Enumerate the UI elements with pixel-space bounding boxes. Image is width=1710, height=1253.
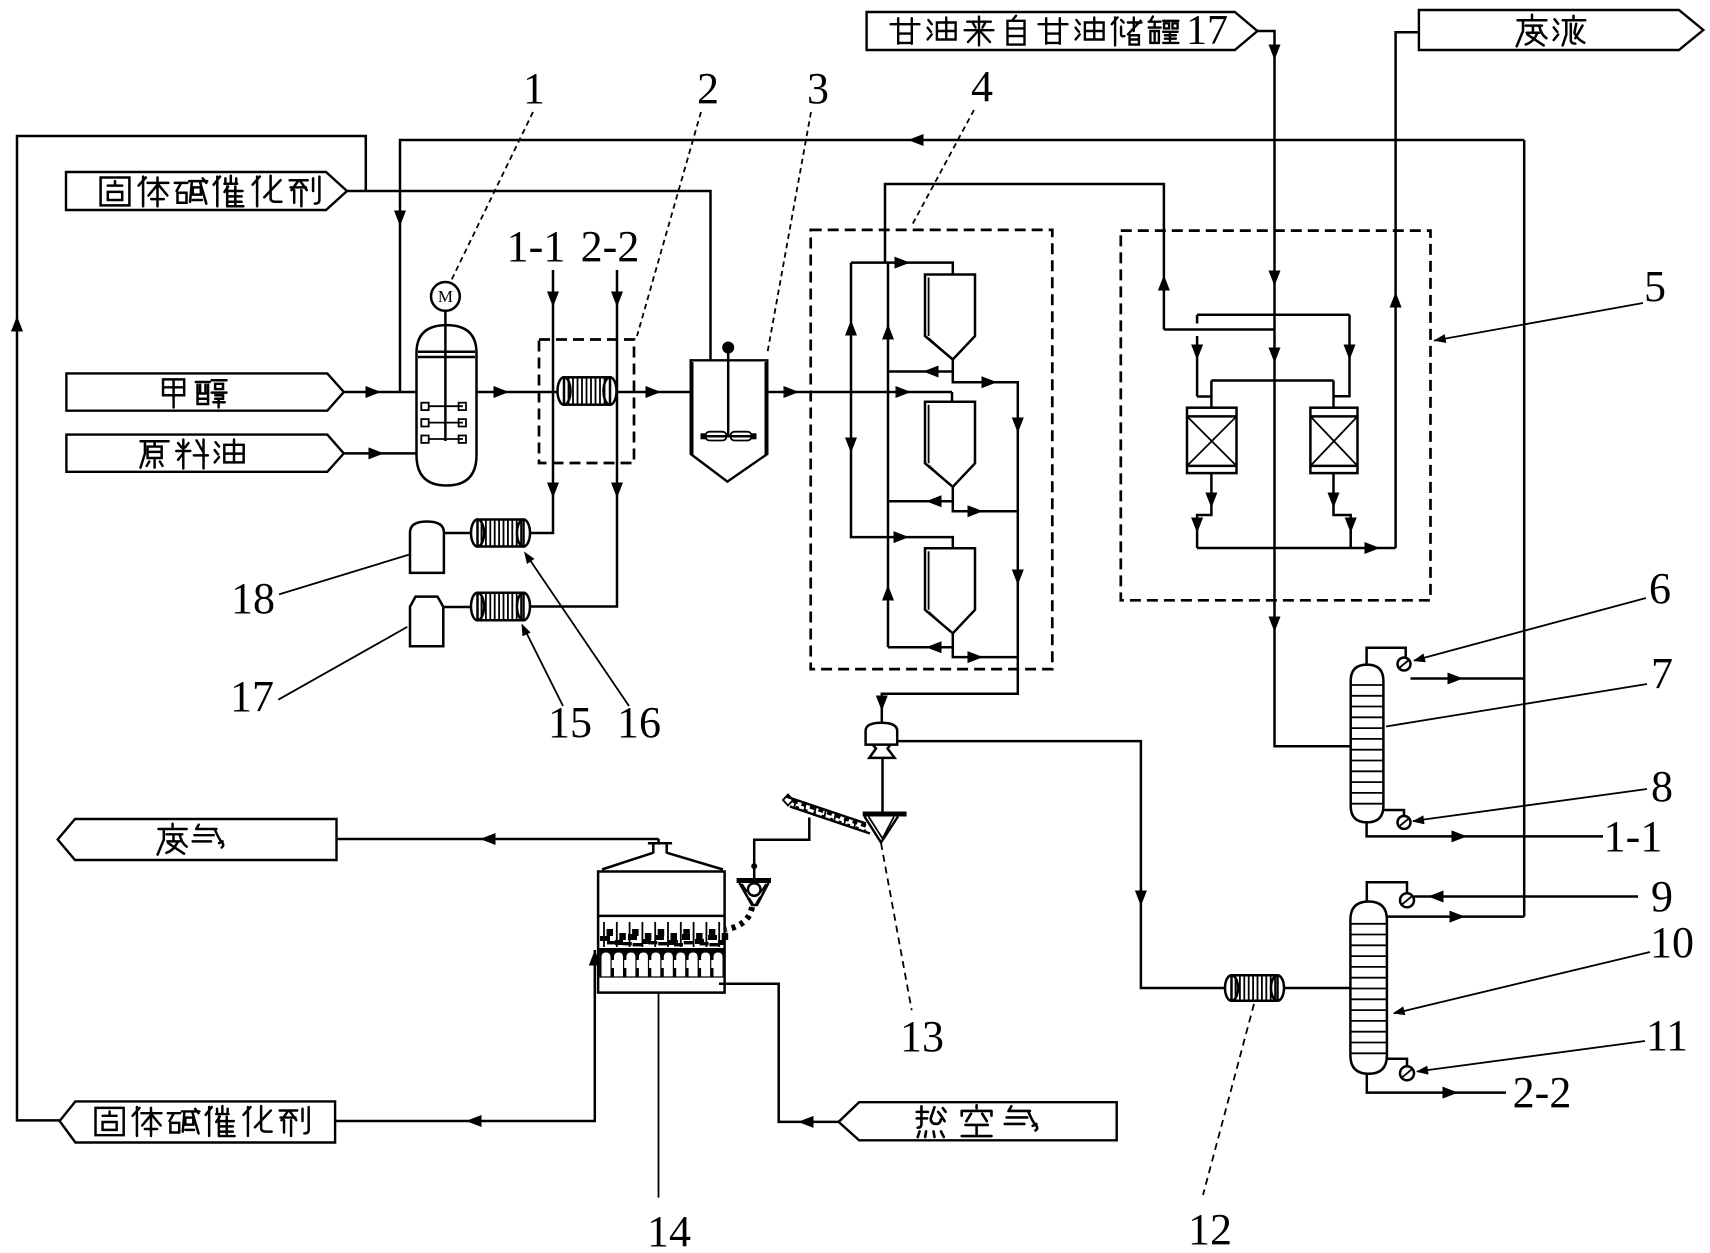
svg-text:9: 9 [1651, 872, 1673, 921]
wire: cyclone 3 underflow to riser B [888, 633, 953, 647]
adsorber B (right, X-packed) [1310, 408, 1357, 473]
svg-text:11: 11 [1646, 1011, 1688, 1060]
wire: glycerol product down to column 7 feed [1275, 381, 1351, 747]
wire: cyclone 1 underflow to riser B [888, 360, 953, 372]
tank 18 [410, 522, 444, 573]
node: methanol inlet banner [66, 373, 343, 410]
wire: overhead transfer line box4 to box5 [885, 184, 1164, 330]
wire: cyclone 2 overflow to right header [953, 501, 1018, 511]
tank 17 [410, 597, 443, 647]
wire: waste gas line from dryer vent [337, 838, 659, 841]
wire: column 7 overhead to recycle riser [1411, 677, 1525, 680]
wire: right long vertical (methanol recycle riser) [1523, 140, 1526, 917]
condenser valve 6 on column 7 [1367, 648, 1411, 671]
condenser valve 9-side on column 10 [1367, 882, 1414, 907]
svg-text:5: 5 [1644, 262, 1666, 311]
heat exchanger E16 [471, 593, 530, 621]
wire: exchanger outlet to vessel 3 [617, 391, 691, 394]
reboiler valve 8 on column 7 [1383, 810, 1410, 829]
svg-text:6: 6 [1649, 564, 1671, 613]
wire: exchanger 12 outlet to column 10 feed [1284, 987, 1350, 990]
dryer spray nozzles [604, 922, 719, 947]
wire: column 10 overhead to recycle riser [1387, 915, 1524, 918]
wire: separator 13 liquid to exchanger 12 [897, 741, 1225, 988]
dryer body [598, 872, 725, 993]
dotted chute from feeder into dryer [726, 907, 752, 930]
dryer candle bed [599, 948, 723, 976]
wire: glycerol line down into box 5 [1257, 31, 1274, 381]
cyclone S3 [925, 548, 975, 633]
label 14 leader [658, 993, 660, 1198]
wire: 1-1 stream down through box2 to exchanger 15 [530, 270, 553, 533]
wire: tank 17 to exchanger 16 [443, 606, 471, 609]
node: waste liquid outlet banner [1419, 10, 1703, 50]
svg-text:17: 17 [1186, 8, 1228, 54]
svg-text:14: 14 [647, 1207, 691, 1253]
wire: spent catalyst line from dryer [335, 950, 595, 1121]
heat exchanger E12 [1225, 975, 1284, 1001]
svg-text:8: 8 [1651, 762, 1673, 811]
svg-text:M: M [438, 287, 453, 306]
wire: adsorber B bottom outlet [1334, 473, 1351, 548]
column T10 body [1350, 902, 1387, 1074]
wire: adsorber A bottom outlet [1197, 473, 1211, 548]
wire: right header drop [1334, 315, 1350, 396]
svg-text:2: 2 [697, 64, 719, 113]
wire: feed drop into cyclone 2 [951, 392, 954, 402]
cyclone S1 [925, 275, 975, 360]
wire: stream 9 into condenser valve [1414, 895, 1638, 898]
wire: hot air line into dryer [719, 984, 839, 1122]
wire: separator 13 solids drop [881, 758, 884, 812]
svg-text:18: 18 [231, 574, 275, 623]
wire: tank 18 to exchanger 15 [444, 532, 471, 535]
separator 13 [866, 723, 898, 758]
motor M on reactor 1 [431, 282, 460, 330]
wire: raw oil feed line [344, 452, 418, 455]
node: solid alkali catalyst return banner [60, 1101, 336, 1142]
svg-text:15: 15 [548, 698, 592, 747]
wire: cyclone 1 feed connector [851, 263, 953, 275]
node: raw oil inlet banner [66, 435, 343, 472]
svg-text:7: 7 [1651, 649, 1673, 698]
svg-text:12: 12 [1188, 1205, 1232, 1253]
svg-text:2-2: 2-2 [1513, 1068, 1572, 1117]
wire: top recycle line to feed [400, 140, 1524, 392]
svg-text:1-1: 1-1 [507, 222, 566, 271]
wire: recycle downcomer A [851, 263, 953, 549]
svg-text:2-2: 2-2 [581, 222, 640, 271]
wire: column 10 bottoms line to 2-2 [1367, 1073, 1506, 1093]
wire: underflow riser B [887, 263, 890, 648]
rotary feeder hopper [737, 881, 771, 906]
inclined screw conveyor [783, 795, 870, 834]
wire: cyclone 2 underflow to riser B [888, 487, 953, 502]
dryer vent [648, 843, 672, 853]
svg-text:17: 17 [230, 672, 274, 721]
column T7 body [1351, 665, 1384, 823]
wire: adsorber top manifold [1211, 381, 1333, 408]
wire: cyclone 3 overflow and box4 bottom outlet to separator 13 [882, 647, 1018, 722]
wire: reactor outlet to exchanger in box 2 [477, 391, 559, 394]
wire: left header drop [1197, 315, 1211, 397]
label 13 dashed leader [881, 843, 912, 1010]
heat exchanger E15 [471, 520, 530, 547]
node: waste gas outlet banner [58, 819, 337, 860]
adsorber A (left, X-packed) [1187, 408, 1237, 473]
reboiler valve 11 on column 10 [1387, 1059, 1414, 1081]
wire: waste gas from dryer vent [657, 839, 660, 843]
collection funnel under separator [863, 814, 907, 843]
svg-text:4: 4 [971, 62, 993, 111]
heat exchanger E (inside box 2) [558, 377, 617, 404]
wire: vessel 3 outlet into box 4 (cyclone train feed) [767, 391, 952, 394]
wire: distribution header [1197, 314, 1349, 317]
wire: box4 gas into distribution header [1164, 328, 1275, 331]
wire: left border catalyst return [17, 136, 366, 1120]
svg-text:16: 16 [617, 698, 661, 747]
node: hot air inlet banner [839, 1102, 1117, 1140]
wire: column 7 bottoms line to 1-1 [1367, 821, 1603, 836]
wire: conveyor step line to feeder hopper [754, 818, 809, 879]
wire: cyclone 1 overflow to right header [953, 372, 1018, 658]
svg-text:3: 3 [807, 64, 829, 113]
svg-text:13: 13 [900, 1012, 944, 1061]
svg-text:1-1: 1-1 [1604, 812, 1663, 861]
label 12 dashed leader [1203, 1004, 1254, 1195]
dryer roof [602, 853, 723, 870]
wire: waste liquid riser from box 5 [1396, 32, 1419, 548]
svg-text:10: 10 [1650, 918, 1694, 967]
wire: catalyst feed line to vessel 3 [347, 191, 711, 360]
node: glycerol from storage tank 17 banner [867, 8, 1258, 54]
node: solid alkali catalyst inlet banner [66, 172, 347, 210]
reactor R1 vessel [417, 325, 477, 485]
cyclone S2 [925, 402, 975, 487]
svg-text:1: 1 [523, 64, 545, 113]
wire: 2-2 stream down through box2 to exchanger 16 [530, 270, 617, 607]
wire: methanol feed line [344, 391, 417, 394]
wire: box5 bottom manifold to waste riser [1197, 547, 1396, 550]
vessel 3 body [691, 342, 768, 482]
